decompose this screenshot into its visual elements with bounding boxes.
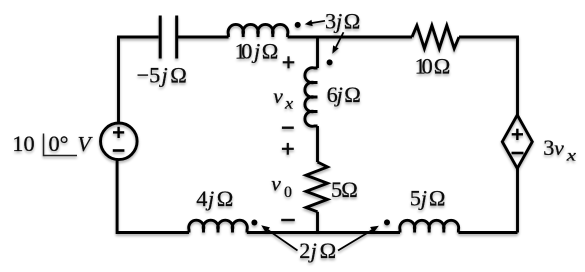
svg-text:V: V xyxy=(78,132,94,156)
svg-text:6jΩ: 6jΩ xyxy=(327,82,361,107)
svg-text:5Ω: 5Ω xyxy=(331,177,358,202)
svg-text:x: x xyxy=(566,147,577,165)
svg-text:10: 10 xyxy=(12,131,34,156)
svg-text:5jΩ: 5jΩ xyxy=(410,186,446,211)
svg-text:2jΩ: 2jΩ xyxy=(299,238,336,263)
svg-text:x: x xyxy=(284,95,294,113)
svg-text:4jΩ: 4jΩ xyxy=(196,186,233,211)
svg-text:10jΩ: 10jΩ xyxy=(235,39,279,64)
svg-text:10Ω: 10Ω xyxy=(415,54,451,79)
svg-text:v: v xyxy=(273,84,283,108)
svg-text:v: v xyxy=(271,172,281,196)
svg-text:3jΩ: 3jΩ xyxy=(325,9,360,34)
svg-text:0: 0 xyxy=(284,184,292,201)
svg-text:3: 3 xyxy=(543,135,554,160)
svg-text:0°: 0° xyxy=(49,131,69,156)
svg-text:v: v xyxy=(554,136,564,160)
svg-text:−5jΩ: −5jΩ xyxy=(137,62,187,87)
